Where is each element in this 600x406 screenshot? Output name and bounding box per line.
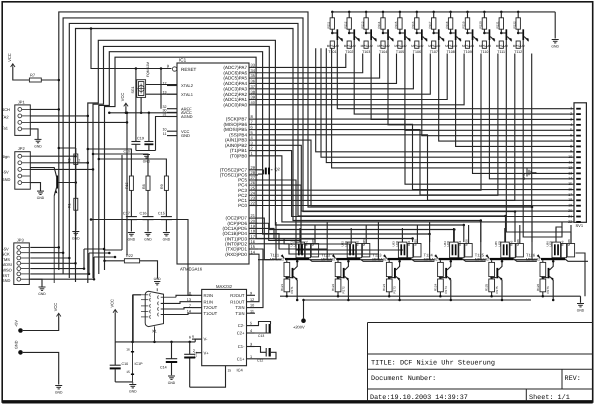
wire PC0 to driver base <box>258 54 532 206</box>
svg-text:REV:: REV: <box>565 375 581 383</box>
wire chain <box>360 259 383 261</box>
svg-text:T110: T110 <box>480 50 488 54</box>
resistor R116 <box>416 11 419 14</box>
pin R2IN <box>192 294 202 296</box>
wire SG1 to rail <box>140 97 142 112</box>
resistor R124 <box>439 260 441 262</box>
svg-text:5: 5 <box>250 322 252 326</box>
svg-text:10: 10 <box>250 304 254 308</box>
wire +200V rail bottom <box>304 299 532 301</box>
wire <box>53 196 55 283</box>
wire to SV1 pin 11 <box>326 48 574 162</box>
svg-text:T106: T106 <box>413 50 421 54</box>
node <box>531 206 534 209</box>
pin C2- <box>247 325 256 327</box>
wire XTAL1 <box>146 93 177 95</box>
svg-text:15: 15 <box>568 182 572 186</box>
wire PB1 to SV1 <box>258 151 574 217</box>
resistor base R134 <box>381 41 385 48</box>
svg-text:(MISO)PB6: (MISO)PB6 <box>224 122 248 127</box>
ground <box>30 183 40 192</box>
wire <box>30 155 75 157</box>
wire to SV1 pin 10 <box>321 48 574 157</box>
svg-text:GND: GND <box>38 292 46 296</box>
wire riser <box>531 207 533 242</box>
wire PB5 to SV1 <box>258 130 574 195</box>
wire PD6 to anode driver <box>258 223 300 240</box>
pin (OC1A)PD5 <box>249 227 258 229</box>
wire risers <box>350 228 352 242</box>
svg-text:19: 19 <box>568 204 572 208</box>
resistor R118 <box>449 11 452 14</box>
wire PB6 to SV1 <box>258 124 574 189</box>
svg-text:GND: GND <box>144 238 152 242</box>
wire PD5 to anode driver <box>258 228 315 239</box>
svg-text:R174: R174 <box>444 286 448 294</box>
wire AGND <box>156 117 178 141</box>
pin T2IN <box>247 307 256 309</box>
wire <box>41 79 59 81</box>
wire PD3 to anode driver <box>258 239 351 244</box>
svg-text:1: 1 <box>250 355 252 359</box>
wire PB7 to SV1 <box>258 119 574 184</box>
pin (ADC7)PA7 <box>249 66 258 68</box>
svg-text:R118: R118 <box>445 21 449 28</box>
svg-text:(AIN0)PB2: (AIN0)PB2 <box>225 143 247 148</box>
wire PA6 to driver base <box>258 54 363 73</box>
svg-text:IC1P: IC1P <box>135 362 144 366</box>
wire PD7 to anode driver <box>258 218 270 260</box>
pin XTAL2 <box>167 85 177 87</box>
resistor R8 <box>146 176 150 190</box>
ground <box>29 279 42 287</box>
pin (MOSI)PB5 <box>249 129 258 131</box>
wire collector drop <box>456 40 574 146</box>
wire collector drop <box>439 40 574 141</box>
ground <box>30 129 38 140</box>
svg-text:T103: T103 <box>362 50 370 54</box>
wire <box>165 190 167 216</box>
svg-text:T109: T109 <box>464 50 472 54</box>
pin PC1 <box>249 199 258 201</box>
ground <box>128 232 135 234</box>
wire PD4 to anode driver <box>258 234 327 249</box>
svg-text:Q2: Q2 <box>275 167 281 172</box>
wire risers <box>504 228 506 242</box>
pin (T1)PB1 <box>249 150 258 152</box>
resistor R113 <box>365 11 368 14</box>
wire <box>30 121 127 123</box>
svg-text:3: 3 <box>250 343 252 347</box>
pin PC2 <box>249 194 258 196</box>
pin V- <box>192 338 202 340</box>
pin (TOSC2)PC7 <box>249 169 258 171</box>
svg-text:(T1)PB1: (T1)PB1 <box>230 148 248 153</box>
svg-text:13: 13 <box>568 171 572 175</box>
wire riser <box>412 239 414 243</box>
wire <box>13 67 30 80</box>
svg-text:R121: R121 <box>280 283 284 291</box>
svg-text:R8: R8 <box>142 184 146 189</box>
wire <box>576 253 586 296</box>
pin T2OUT <box>192 307 202 309</box>
svg-text:33: 33 <box>251 63 256 68</box>
resistor R114 <box>382 11 385 14</box>
svg-text:R123: R123 <box>382 283 386 291</box>
svg-text:(SCK)PB7: (SCK)PB7 <box>226 117 248 122</box>
wire risers <box>555 228 557 242</box>
wire base <box>258 259 281 261</box>
svg-text:(ADC6)PA6: (ADC6)PA6 <box>223 70 247 75</box>
svg-text:C2+: C2+ <box>237 331 245 336</box>
resistor base R140 <box>482 41 486 48</box>
wire riser <box>314 239 316 242</box>
svg-text:C19: C19 <box>137 137 144 141</box>
wire base <box>412 259 435 261</box>
wire PB0 to SV1 <box>258 156 574 222</box>
pin R1OUT <box>247 301 256 303</box>
transistor T131 <box>292 268 294 278</box>
svg-text:R113: R113 <box>360 21 364 28</box>
resistor R175 <box>489 279 495 292</box>
wire riser <box>429 234 431 242</box>
svg-text:18: 18 <box>568 198 572 202</box>
pin (ADC5)PA5 <box>249 77 258 79</box>
transistor T126 body <box>541 258 565 260</box>
svg-text:(SS)PB4: (SS)PB4 <box>229 132 247 137</box>
wire chain <box>463 259 486 261</box>
svg-text:GND: GND <box>163 238 171 242</box>
svg-text:14: 14 <box>568 177 572 181</box>
resistor base R142 <box>516 41 520 48</box>
wire <box>105 260 125 262</box>
svg-text:VCC: VCC <box>109 299 114 308</box>
svg-text:GND: GND <box>37 196 45 200</box>
svg-text:GND: GND <box>34 144 42 148</box>
IC1P power pins <box>132 342 134 382</box>
svg-text:(T0)PB0: (T0)PB0 <box>230 153 248 158</box>
title block <box>367 323 369 402</box>
pin AGND <box>167 116 177 118</box>
svg-text:MISO: MISO <box>2 268 12 273</box>
wire <box>30 252 63 254</box>
wire chain <box>309 259 332 261</box>
wire base <box>309 259 332 261</box>
svg-text:T101: T101 <box>328 50 336 54</box>
svg-text:15: 15 <box>228 369 232 373</box>
transistor T104 <box>383 32 387 34</box>
wire R9 feed <box>99 159 167 176</box>
svg-text:(ADC2)PA2: (ADC2)PA2 <box>223 92 247 97</box>
pin (ADC1)PA1 <box>249 99 258 101</box>
svg-text:R121: R121 <box>496 21 500 29</box>
svg-text:(ADC3)PA3: (ADC3)PA3 <box>223 86 247 91</box>
wires X1 to MAX232 <box>161 296 176 298</box>
wire XTAL2 <box>146 84 177 86</box>
wire TXD <box>255 249 263 308</box>
pin R1IN <box>192 301 202 303</box>
svg-text:Ta1: Ta1 <box>2 126 9 131</box>
svg-text:R115: R115 <box>394 21 398 28</box>
wire to V- pin <box>195 339 202 342</box>
transistor T106 <box>417 32 421 34</box>
pin T1IN <box>247 312 256 314</box>
svg-text:TA2: TA2 <box>2 115 10 120</box>
svg-text:Sheet: 1/1: Sheet: 1/1 <box>529 394 570 402</box>
svg-text:R116: R116 <box>411 21 415 28</box>
wire bus A6 <box>93 46 454 278</box>
svg-text:C13: C13 <box>258 334 264 338</box>
svg-text:20: 20 <box>568 209 572 213</box>
resistor R174 <box>438 279 444 292</box>
resistor R117 <box>432 11 435 14</box>
svg-text:16: 16 <box>126 348 130 352</box>
resistor R7 <box>29 78 41 82</box>
svg-text:T104: T104 <box>379 50 387 54</box>
wire bus A3 <box>69 23 505 278</box>
transistor T135 <box>496 268 498 278</box>
transistor T112 <box>518 32 522 34</box>
wire risers <box>401 228 403 242</box>
transistor T134 <box>445 268 447 278</box>
svg-text:12: 12 <box>163 82 167 86</box>
wire X1 pin1 riser <box>132 295 134 342</box>
svg-text:R122: R122 <box>331 283 335 291</box>
power VCC top-left <box>11 64 15 67</box>
svg-text:T1OUT: T1OUT <box>204 311 218 316</box>
resistor base R135 <box>398 41 402 48</box>
resistor R112 <box>348 11 351 14</box>
wire X1 bottom <box>154 326 156 342</box>
svg-text:R176: R176 <box>546 286 550 294</box>
resistor R9 <box>164 176 168 190</box>
resistor R122 <box>337 260 339 262</box>
wire VCC rail <box>114 313 116 342</box>
pin (ADC2)PA2 <box>249 93 258 95</box>
resistor R119 <box>466 11 469 14</box>
wire PB2 to SV1 <box>258 145 574 211</box>
svg-text:GND: GND <box>55 391 63 395</box>
wire rail to ground <box>554 12 556 39</box>
wire base <box>463 259 486 261</box>
svg-text:22: 22 <box>251 201 256 206</box>
svg-text:SV1: SV1 <box>576 223 584 228</box>
svg-text:R9: R9 <box>160 184 164 189</box>
wire Sign to MAX232 <box>91 220 192 296</box>
transistor T132 <box>343 268 345 278</box>
resistor R1 <box>74 198 78 210</box>
wire collector drop <box>523 40 562 237</box>
crystal Q2 <box>258 169 264 171</box>
wire base <box>58 182 76 184</box>
svg-text:+200V: +200V <box>293 325 305 330</box>
node <box>411 237 414 240</box>
transistor T105 <box>400 32 404 34</box>
pin PC3 <box>249 189 258 191</box>
wire <box>30 115 88 117</box>
wire collector drop <box>405 40 574 130</box>
svg-text:39: 39 <box>251 95 256 100</box>
svg-text:C1+: C1+ <box>237 356 245 361</box>
svg-text:GND: GND <box>154 277 162 281</box>
svg-text:RESET: RESET <box>181 67 197 72</box>
wire base <box>360 259 383 261</box>
svg-text:11: 11 <box>250 309 254 313</box>
pin PC5 <box>249 179 258 181</box>
ground sideways <box>526 169 528 177</box>
svg-text:T2IN: T2IN <box>235 305 244 310</box>
wire <box>30 262 75 264</box>
pin AVCC <box>167 111 177 113</box>
oscillator SG1 <box>137 80 146 98</box>
svg-text:9: 9 <box>250 291 252 295</box>
resistor R115 <box>399 11 402 14</box>
pin (T0)PB0 <box>249 155 258 157</box>
svg-text:15: 15 <box>126 370 130 374</box>
svg-text:SG1: SG1 <box>131 86 135 93</box>
svg-text:MAX232: MAX232 <box>216 284 233 289</box>
wire collector drop <box>388 40 574 125</box>
resistor R123 <box>388 260 390 262</box>
svg-text:17: 17 <box>568 193 572 197</box>
svg-text:T2OUT: T2OUT <box>204 305 218 310</box>
wire GND rail bottom <box>280 295 581 297</box>
svg-text:10: 10 <box>163 127 167 131</box>
svg-text:GND: GND <box>522 172 526 180</box>
svg-text:T102: T102 <box>345 50 353 54</box>
resistor R22 <box>124 259 139 263</box>
pin (SS)PB4 <box>249 134 258 136</box>
svg-text:6: 6 <box>189 335 191 339</box>
wire PC4 <box>258 185 378 254</box>
svg-text:Date:19.10.2003 14:39:37: Date:19.10.2003 14:39:37 <box>370 394 468 402</box>
svg-text:GND: GND <box>181 133 190 138</box>
resistor R126 <box>542 260 544 262</box>
ground <box>145 232 152 234</box>
power GND post <box>18 350 23 355</box>
connector X1 DB9 <box>145 291 163 326</box>
wire GND rail top <box>332 11 555 13</box>
transistor T122 body <box>336 258 360 260</box>
svg-text:4: 4 <box>250 329 252 333</box>
wire AVCC rail <box>109 112 177 114</box>
svg-text:11: 11 <box>568 161 572 165</box>
wire <box>121 155 123 250</box>
resistor base R138 <box>449 41 453 48</box>
svg-text:GND: GND <box>72 237 80 241</box>
svg-text:TITLE: DCF Nixie Uhr Steuerun: TITLE: DCF Nixie Uhr Steuerung <box>371 360 495 368</box>
pin (OC2)PD7 <box>249 217 258 219</box>
resistor base R136 <box>415 41 419 48</box>
wire riser <box>350 242 352 244</box>
wire <box>30 268 84 270</box>
resistor base R139 <box>465 41 469 48</box>
power +200V post <box>303 300 305 318</box>
wire PC3 to driver base <box>258 54 481 191</box>
ground <box>168 375 175 377</box>
svg-text:21: 21 <box>568 214 572 218</box>
svg-text:C16: C16 <box>140 212 147 216</box>
svg-text:T107: T107 <box>430 50 438 54</box>
svg-text:C2-: C2- <box>238 323 245 328</box>
node <box>514 210 517 213</box>
svg-text:(ADC5)PA5: (ADC5)PA5 <box>223 76 247 81</box>
wire collector drop <box>422 40 574 136</box>
wire base <box>514 259 537 261</box>
wire risers <box>453 228 455 242</box>
svg-text:GND: GND <box>577 309 585 313</box>
ground <box>577 303 584 305</box>
wire risers <box>299 228 301 242</box>
wire PD2 to anode driver <box>258 244 378 254</box>
svg-text:SCK: SCK <box>2 252 11 257</box>
svg-text:(MOSI)PB5: (MOSI)PB5 <box>224 127 248 132</box>
pin V+ <box>196 352 202 354</box>
wire PB3 to SV1 <box>258 140 574 206</box>
pin (RXD)PD0 <box>249 253 258 255</box>
transistor T101 <box>332 32 336 34</box>
wire <box>140 261 158 279</box>
capacitor C12 <box>255 347 266 353</box>
transistor T111 <box>501 32 505 34</box>
svg-text:14: 14 <box>251 249 256 254</box>
svg-text:PC0: PC0 <box>238 203 247 208</box>
resistor base R137 <box>432 41 436 48</box>
power VCC <box>57 313 61 316</box>
wire <box>126 113 128 255</box>
wire collector drop <box>506 40 556 232</box>
svg-text:(ADC1)PA1: (ADC1)PA1 <box>223 97 247 102</box>
transistor T109 <box>468 32 472 34</box>
resistor R176 <box>540 279 546 292</box>
svg-text:6: 6 <box>570 134 572 138</box>
svg-text:V-: V- <box>204 337 209 342</box>
wire <box>30 278 94 280</box>
node <box>480 219 483 222</box>
svg-text:GND: GND <box>2 278 11 283</box>
svg-text:34: 34 <box>251 68 256 73</box>
svg-text:5: 5 <box>570 128 572 132</box>
wire to MAX232 GND pin <box>190 366 226 388</box>
svg-text:12: 12 <box>568 166 572 170</box>
svg-text:T112: T112 <box>514 50 522 54</box>
svg-text:9: 9 <box>570 150 572 154</box>
svg-text:2: 2 <box>79 159 81 163</box>
wire X1 pin1 down <box>133 295 141 343</box>
svg-text:38: 38 <box>251 89 256 94</box>
wire bus A8 <box>105 57 413 270</box>
svg-text:VCC: VCC <box>120 93 125 102</box>
svg-text:GND: GND <box>128 238 136 242</box>
resistor base R141 <box>499 41 503 48</box>
svg-text:C1-: C1- <box>238 344 245 349</box>
pin (AIN0)PB2 <box>249 144 258 146</box>
svg-text:+5V: +5V <box>2 246 10 251</box>
pin (INT1)PD3 <box>249 238 258 240</box>
wire <box>556 222 571 243</box>
wire PA0 to driver base <box>258 54 464 105</box>
pin (AIN1)PB3 <box>249 139 258 141</box>
connector JP2 <box>15 152 30 190</box>
wire riser <box>453 230 455 243</box>
svg-text:22: 22 <box>568 220 572 224</box>
svg-text:IC4: IC4 <box>237 368 244 373</box>
power VCC middle <box>124 103 128 106</box>
resistor R111 <box>331 11 334 14</box>
svg-text:R119: R119 <box>462 21 466 28</box>
wire bus A2 <box>63 18 515 274</box>
svg-text:R120: R120 <box>479 21 483 29</box>
